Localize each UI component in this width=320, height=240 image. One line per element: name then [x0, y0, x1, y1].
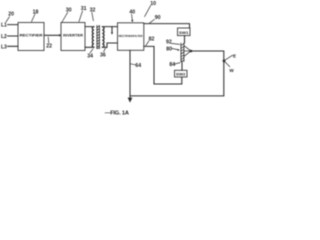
wire L1	[8, 24, 19, 26]
svg-text:INVERTER: INVERTER	[63, 33, 84, 37]
svg-text:34: 34	[87, 54, 93, 60]
label 64 with leader	[130, 63, 141, 69]
wire L3	[8, 45, 19, 47]
svg-text:18: 18	[33, 9, 39, 15]
transformer 32 primary winding 34	[92, 27, 94, 48]
svg-text:80: 80	[166, 46, 172, 52]
bottom rail wire	[130, 95, 224, 97]
svg-text:31: 31	[81, 6, 87, 12]
label 22 with leader	[46, 37, 52, 49]
svg-text:22: 22	[46, 43, 52, 49]
wire secondary top to rectifier 40	[104, 26, 118, 28]
svg-text:RECTIFIER: RECTIFIER	[20, 34, 44, 38]
label 34 with leader	[87, 49, 93, 60]
svg-text:10: 10	[150, 1, 156, 7]
work lead wire from rectifier 40 bottom	[129, 50, 131, 98]
label 20 with leader	[6, 12, 14, 22]
label 30 with leader	[62, 7, 72, 22]
transformer 32 secondary winding 36	[102, 27, 104, 48]
svg-text:36: 36	[100, 52, 106, 58]
svg-text:SW1: SW1	[179, 30, 189, 35]
electrode element (hatched rod 62)	[181, 43, 184, 62]
wire 22 (dc bus)	[44, 34, 61, 37]
switch SW1	[178, 28, 191, 36]
down arrowhead on work lead	[128, 98, 133, 103]
svg-text:RECTIFIER/FILTER: RECTIFIER/FILTER	[119, 34, 144, 38]
inverter block 30	[61, 23, 85, 51]
svg-text:30: 30	[66, 7, 72, 13]
label 80 with arrow leader	[166, 46, 180, 52]
svg-text:82: 82	[149, 37, 155, 43]
arc fan at electrode with contact node	[184, 46, 192, 56]
label 10 with leader	[145, 1, 156, 17]
junction node with E and W leads	[223, 54, 236, 73]
svg-text:40: 40	[129, 10, 135, 16]
svg-text:32: 32	[90, 7, 96, 13]
arrow tap on secondary top wire	[111, 27, 113, 35]
label 32 with leader	[90, 7, 96, 20]
wire L2	[8, 35, 19, 37]
label 92 with leader	[166, 39, 180, 45]
output rectifier/filter block 40	[118, 23, 144, 51]
label 82 with leader	[146, 37, 155, 46]
label 36 with leader	[100, 48, 106, 58]
svg-text:E: E	[233, 54, 236, 59]
svg-text:90: 90	[155, 15, 161, 21]
wire contact node to right rail	[192, 51, 224, 96]
wire 82 loop from rectifier 40 to SW2	[144, 46, 182, 84]
switch SW2	[175, 70, 188, 77]
svg-text:L3: L3	[1, 44, 7, 50]
svg-text:L2: L2	[1, 34, 7, 40]
label 31 with leader	[79, 6, 87, 22]
svg-text:W: W	[229, 68, 234, 73]
label 84 with leader	[169, 62, 180, 68]
label 40 with arrow leader	[129, 10, 135, 23]
label 18 with leader	[32, 9, 39, 21]
rectifier block 18	[18, 23, 44, 51]
transformer 32 core	[97, 25, 100, 48]
transformer 32 primary stub wires	[85, 27, 92, 48]
svg-text:—FIG. 1A: —FIG. 1A	[105, 110, 129, 116]
wire electrode element to SW2	[181, 62, 183, 71]
svg-text:SW2: SW2	[176, 72, 186, 77]
wire secondary bottom to rectifier 40	[104, 43, 118, 47]
wire SW1 to electrode element	[184, 36, 186, 43]
svg-text:92: 92	[166, 39, 172, 45]
electrode lead wire 90	[144, 24, 190, 28]
svg-text:84: 84	[169, 62, 175, 68]
label 90 with leader	[149, 15, 160, 23]
svg-text:64: 64	[135, 63, 141, 69]
svg-text:L1: L1	[1, 23, 7, 29]
